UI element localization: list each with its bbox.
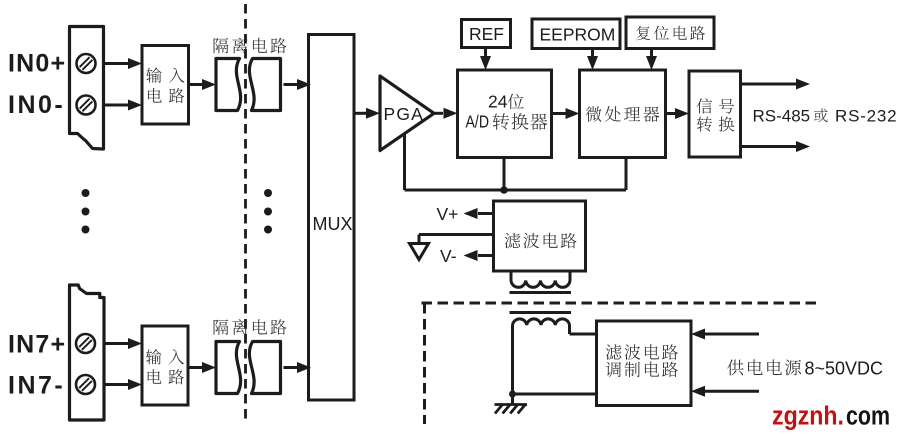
terminal block J1 (IN0 screw connector) [70,27,104,150]
transformer T1 secondary winding [513,319,570,325]
isolation boundary dashed line (horizontal, power side) [422,302,817,305]
svg-text:IN0-: IN0- [8,91,65,119]
screw terminal IN0+ [77,54,96,73]
wire power input + (8~50VDC) [691,329,759,340]
wire input circuit U2 to isolation barrier 2 [188,362,216,373]
svg-text:IN7+: IN7+ [8,331,66,359]
wire IN7+ to input circuit [104,338,142,349]
label V+ [437,204,459,224]
label IN7- [8,372,65,400]
wire ADC bottom to feedback node A [503,158,506,191]
svg-text:RS-232: RS-232 [835,107,897,126]
screw terminal IN0- [77,96,96,115]
isolation circuit barrier 2 (transformer gap symbol) [216,342,281,394]
wire power input - (8~50VDC) [691,386,759,397]
junction node A (dot) [500,186,508,194]
label RS-485 or RS-232 [753,107,898,126]
svg-text:com: com [846,403,890,431]
REF U6 (voltage reference) [462,20,511,48]
analog common symbol (open triangle) [410,244,429,260]
wire IN7- to input circuit [104,379,142,390]
wire MCU to signal converter [666,108,690,119]
svg-text:24: 24 [488,91,508,111]
wire T1 secondary left leg to power ground [511,325,514,394]
svg-text:IN0+: IN0+ [8,50,66,78]
wire RS output (top) [741,79,811,90]
svg-text:IN7-: IN7- [8,372,65,400]
MCU U9 (microprocessor 微处理器) [580,70,666,158]
ellipsis dots (right column, isolation channels) [264,189,272,234]
wire V- output [464,250,494,261]
junction node (power ground tap) [509,391,516,398]
wire REF to ADC [480,47,491,71]
wire T1 secondary right leg to filter/modulation block [570,325,597,334]
op-amp PGA U4 (programmable gain amplifier) [380,76,434,151]
wire power ground to filter/modulation block [513,393,597,396]
screw terminal IN7- [76,375,95,394]
wire MUX to PGA [356,108,381,119]
isolation circuit barrier 1 (transformer gap symbol) [216,59,281,111]
power ground symbol (hatched earth) [495,394,528,414]
wire input circuit U1 to isolation barrier 1 [189,79,217,90]
label IN7+ [8,331,66,359]
wire reset circuit to MCU [646,49,657,70]
svg-text:RS-485: RS-485 [753,107,811,126]
wire IN0+ to input circuit [104,58,143,69]
terminal block J2 (IN7 screw connector) [70,285,105,420]
label 隔离电路 (bottom) [214,319,287,335]
transformer T1 core (upper bar) [510,291,572,294]
input circuit block U2 (bottom) [142,326,188,405]
ADC U5 (24-bit A/D converter) [458,70,552,158]
EEPROM U7 [532,19,620,49]
svg-text:MUX: MUX [313,214,353,234]
wire V+ output [464,208,494,219]
svg-text:V-: V- [440,246,457,266]
feedback wire MCU to PGA (gain/control loop) [405,133,627,190]
svg-text:EEPROM: EEPROM [540,24,616,44]
wire RS output (bottom) [741,141,811,152]
signal converter U10 (信号转换) [689,71,741,157]
wire IN0- to input circuit [104,100,143,111]
svg-text:A/D: A/D [466,111,490,131]
watermark zgznh.com [772,403,890,431]
svg-text:zgznh.: zgznh. [772,403,844,431]
transformer T1 core (lower bar) [510,311,572,314]
wire isolation barrier 1 to MUX [284,79,312,90]
isolation boundary dashed line (vertical drop, power side) [423,303,426,424]
wire filter circuit to analog common [419,235,494,243]
isolation boundary dashed line (vertical, input side) [244,4,247,421]
filter circuit U11 (滤波电路) [494,201,586,271]
svg-text:V+: V+ [437,204,459,224]
svg-text:REF: REF [469,24,504,44]
wire PGA to ADC [434,108,458,119]
filter & modulation block U12 (滤波电路/调制电路) [597,321,692,406]
wire ADC to MCU [552,108,580,119]
label IN0- [8,91,65,119]
screw terminal IN7+ [76,334,95,353]
label power supply 供电电源 8~50VDC [727,359,883,379]
multiplexer MUX U3 [309,35,355,401]
wire EEPROM to MCU [587,49,598,71]
reset circuit U8 (复位电路) [626,17,714,49]
ellipsis dots (left column, between IN0 and IN7 channels) [82,189,90,234]
svg-text:PGA: PGA [384,104,425,124]
wire isolation barrier 2 to MUX [284,362,312,373]
label 隔离电路 (top) [214,38,287,54]
svg-text:8~50VDC: 8~50VDC [805,359,884,379]
label V- [440,246,457,266]
label IN0+ [8,50,66,78]
transformer T1 primary winding [511,271,570,287]
input circuit block U1 (top) [142,46,189,125]
